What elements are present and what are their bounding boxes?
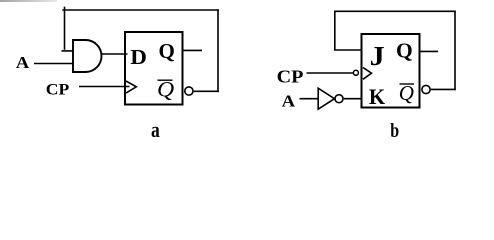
svg-text:Q: Q <box>396 39 413 63</box>
node label CP (circuit b) <box>277 68 304 87</box>
node label CP (circuit a) <box>46 80 69 98</box>
wire: AND gate top input tick <box>62 50 74 52</box>
D flip-flop U1 body <box>125 32 183 105</box>
svg-text:D: D <box>130 45 147 69</box>
inverter G2 bubble <box>335 95 343 103</box>
wire: A to inverter <box>300 98 319 100</box>
node label A (circuit b) <box>282 91 296 110</box>
overline of Q-bar (circuit a) <box>158 79 173 81</box>
decorative faded border fragment (not labelled as component) <box>0 0 57 2</box>
wire: input A to AND gate <box>34 63 73 65</box>
clock edge wedge (circuit b) <box>363 68 372 80</box>
svg-text:J: J <box>370 41 385 72</box>
wire: Q output stub (circuit a) <box>184 49 203 51</box>
wire: circuit a feedback left vertical drop to AND input <box>64 7 66 50</box>
wire: circuit a feedback right vertical <box>217 9 219 92</box>
inversion bubble on Q-bar output (circuit b) <box>422 85 430 93</box>
pin label J <box>370 41 385 72</box>
wire: feedback to J input <box>334 49 362 51</box>
caption b <box>390 119 399 141</box>
svg-text:a: a <box>151 118 160 140</box>
wire: circuit b feedback left vertical <box>334 11 336 51</box>
wire: circuit a feedback top horizontal <box>62 9 219 11</box>
svg-text:CP: CP <box>46 80 69 98</box>
wire: Q output stub (circuit b) <box>421 50 439 52</box>
wire: Q-bar output to feedback (circuit b) <box>431 88 456 90</box>
svg-text:b: b <box>390 119 399 140</box>
wire: CP to clock bubble (circuit b) <box>307 72 354 74</box>
svg-text:A: A <box>16 53 30 72</box>
pin label K <box>369 85 386 110</box>
wire: inverter to K input <box>344 98 362 100</box>
JK flip-flop U2 body <box>362 34 420 108</box>
wire: CP to clock input (circuit a) <box>79 86 130 88</box>
overline of Q-bar (circuit b) <box>400 83 415 85</box>
caption a <box>151 118 160 142</box>
pin label D <box>130 45 147 69</box>
svg-text:CP: CP <box>277 68 304 87</box>
clock edge wedge (circuit a) <box>126 81 136 93</box>
clock inversion bubble (circuit b) <box>353 70 358 75</box>
node label A (circuit a input) <box>16 53 30 72</box>
inverter G2 triangle <box>318 88 334 109</box>
pin label Q-bar (circuit a) <box>157 77 175 101</box>
wire: circuit b feedback right vertical <box>454 11 456 91</box>
AND gate G1 <box>73 40 102 72</box>
wire: circuit b feedback top horizontal <box>334 10 456 12</box>
svg-text:Q: Q <box>157 77 175 101</box>
wire: AND output to D input <box>102 53 128 55</box>
svg-text:A: A <box>282 91 296 110</box>
inversion bubble on Q-bar output (circuit a) <box>185 87 193 95</box>
svg-text:K: K <box>369 85 386 110</box>
wire: Q-bar output to feedback (circuit a) <box>194 90 219 92</box>
svg-text:Q: Q <box>159 39 175 63</box>
